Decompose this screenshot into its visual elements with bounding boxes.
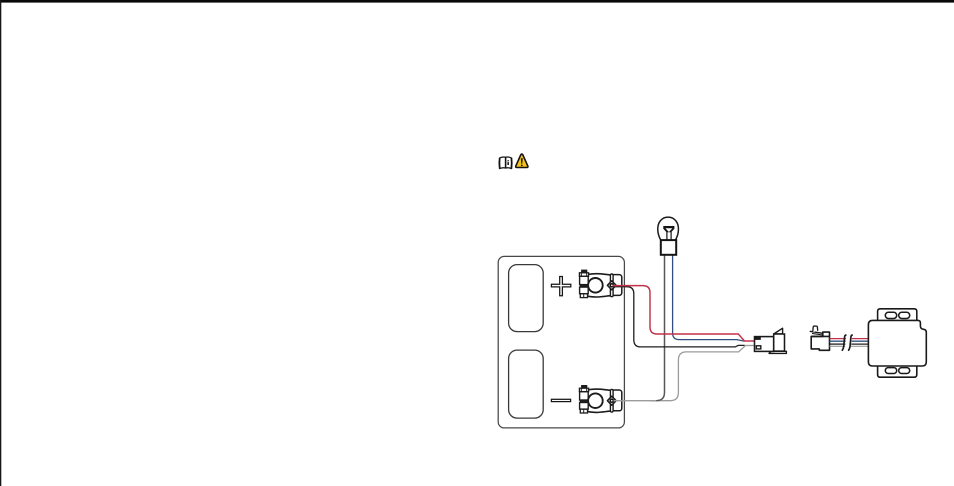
battery negative terminal clamp [579,385,621,413]
module top tab hole 1 [885,312,896,318]
wire gray to module [851,345,869,347]
wire black to module [851,343,868,345]
wire: red from plus terminal to connector [613,286,755,341]
book (refer to manual) icon [499,157,511,169]
wire bundle right of break [851,339,869,347]
wire black harness segment [830,343,846,345]
wire: bulb left (dark) to minus terminal [650,253,665,401]
warning triangle icon [516,154,528,167]
connector female (module side) [810,326,830,350]
page top edge bar [0,0,954,3]
wire: dark from bulb joins minus wire (overdraw) [656,253,664,401]
wire: gray from minus terminal [614,346,746,401]
wire break mark 1 [842,335,846,350]
battery cell window 1 [509,265,544,332]
wire red to module [852,338,869,340]
bulb filament stem [666,232,668,240]
wire: gray stub into connector pin 2 [744,345,755,347]
module top tab hole 2 [899,312,910,318]
bulb L1 glass envelope [658,217,679,240]
bulb filament cup [663,226,674,232]
module bottom tab hole 2 [899,368,910,374]
wire red harness segment [830,338,847,340]
minus symbol [551,399,570,401]
page left edge bar [0,0,1,486]
module bottom tab hole 1 [885,368,896,374]
wire: black from plus terminal to connector [613,287,745,347]
wire gray harness segment [830,345,846,347]
wire: blue from bulb to connector [673,253,745,341]
battery case [498,256,624,428]
wire blue to module [852,340,869,342]
control module mounting tab top [878,309,917,321]
plus symbol [551,277,570,296]
connector male (harness side) [755,328,787,353]
battery cell window 2 [509,350,544,418]
battery positive terminal clamp [579,270,621,298]
control module body [868,320,926,366]
latch arm lines [810,331,823,333]
bulb L1 base [661,240,676,255]
wire break mark 2 [849,335,853,350]
latch flag [813,326,818,332]
wire bundle left of break [830,339,847,347]
wire blue harness segment [830,340,846,342]
control module mounting tab bottom [878,365,917,377]
